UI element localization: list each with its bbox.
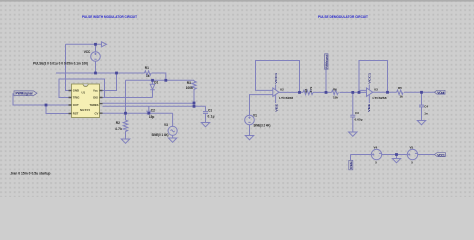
svg-text:SINE(0 1 4K): SINE(0 1 4K): [152, 133, 169, 137]
svg-text:GND: GND: [73, 89, 79, 93]
svg-text:LTC6268: LTC6268: [279, 96, 293, 100]
svg-text:R3: R3: [187, 81, 191, 85]
svg-text:R2: R2: [116, 121, 120, 125]
svg-text:SINE(3 2 4K): SINE(3 2 4K): [254, 124, 271, 128]
svg-text:NE555: NE555: [80, 108, 90, 112]
svg-text:C2: C2: [151, 108, 155, 112]
svg-text:Vcc: Vcc: [93, 89, 98, 93]
svg-text:C4: C4: [424, 104, 428, 108]
svg-text:U1: U1: [82, 91, 86, 95]
svg-text:C1: C1: [208, 109, 212, 113]
svg-text:DIS: DIS: [93, 96, 98, 100]
svg-text:VEE: VEE: [367, 104, 371, 112]
svg-text:0.1µ: 0.1µ: [208, 115, 215, 119]
svg-text:VEE: VEE: [349, 161, 353, 169]
svg-text:PULSE DEMODULATOR CIRCUIT: PULSE DEMODULATOR CIRCUIT: [318, 15, 369, 19]
svg-text:100k: 100k: [186, 86, 193, 90]
svg-text:PWMsignal: PWMsignal: [16, 92, 33, 96]
svg-text:VCC1: VCC1: [437, 154, 445, 158]
svg-text:TRIG: TRIG: [73, 96, 80, 100]
svg-text:V4: V4: [374, 145, 378, 149]
svg-text:VCC: VCC: [84, 50, 91, 54]
svg-text:RST: RST: [73, 112, 79, 116]
svg-text:15p: 15p: [149, 115, 155, 119]
svg-text:R5: R5: [398, 86, 402, 90]
svg-text:U3: U3: [374, 88, 378, 92]
svg-text:OUT: OUT: [73, 103, 79, 107]
svg-text:VCC1: VCC1: [368, 72, 372, 83]
svg-text:CV: CV: [95, 112, 99, 116]
svg-text:1n: 1n: [424, 111, 428, 115]
svg-text:R6: R6: [333, 88, 337, 92]
svg-text:U2: U2: [280, 88, 284, 92]
svg-text:.tran 0 15m 0 0.5u startup: .tran 0 15m 0 0.5u startup: [10, 172, 51, 176]
svg-text:4.7k: 4.7k: [309, 86, 313, 92]
svg-text:15k: 15k: [333, 95, 338, 99]
svg-text:D1: D1: [154, 81, 158, 85]
svg-text:V3: V3: [164, 123, 168, 127]
svg-text:PWMsignal: PWMsignal: [324, 54, 328, 68]
svg-text:VCC1: VCC1: [274, 72, 278, 83]
svg-text:VEE: VEE: [274, 104, 278, 112]
svg-text:V1: V1: [253, 113, 257, 117]
svg-text:THRES: THRES: [90, 103, 99, 107]
svg-text:PULSE(3 0 0.01u 0 0 0.05m 0.1m: PULSE(3 0 0.01u 0 0 0.05m 0.1m 100): [33, 62, 88, 66]
svg-text:1k: 1k: [146, 74, 150, 78]
svg-text:V5: V5: [410, 145, 414, 149]
svg-text:R1: R1: [145, 66, 149, 70]
svg-text:0.65µ: 0.65µ: [355, 117, 363, 121]
svg-text:1k: 1k: [400, 94, 404, 98]
svg-text:PULSE WIDTH MODULATOR CIRCUIT: PULSE WIDTH MODULATOR CIRCUIT: [82, 15, 138, 19]
svg-text:C3: C3: [355, 111, 359, 115]
svg-text:4.7k: 4.7k: [115, 127, 122, 131]
svg-text:LTC6268: LTC6268: [373, 96, 387, 100]
svg-text:VOut: VOut: [437, 91, 445, 95]
svg-text:R4: R4: [304, 88, 308, 92]
